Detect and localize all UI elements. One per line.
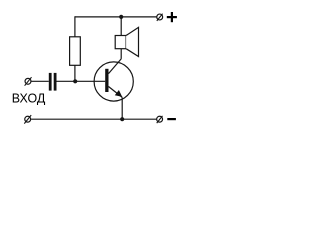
label: minus sign — [167, 118, 176, 120]
wire: input terminal to capacitor — [31, 80, 49, 82]
wire: bottom rail — [31, 118, 156, 120]
label: plus sign — [167, 12, 177, 22]
junction: top rail / speaker branch — [119, 15, 123, 19]
wire: resistor bottom to base node — [74, 65, 76, 81]
wire: emitter to bottom rail — [121, 97, 123, 119]
junction: base node — [73, 79, 77, 83]
speaker BA1 — [115, 27, 138, 56]
wire: speaker top to top rail — [120, 17, 122, 36]
terminal: plus output — [157, 14, 163, 21]
terminal: minus output — [157, 116, 163, 123]
wire: top rail — [75, 16, 157, 18]
junction: emitter / bottom rail — [120, 117, 124, 121]
terminal: input — [25, 77, 32, 86]
wire: capacitor to transistor base — [57, 80, 106, 82]
wire: top rail corner down to resistor top — [74, 16, 76, 37]
svg-text:ВХОД: ВХОД — [12, 92, 46, 106]
transistor VT1 — [94, 59, 133, 101]
wire: collector to speaker bottom — [120, 49, 122, 59]
terminal: common (ground) input — [24, 115, 31, 124]
resistor R1 — [70, 37, 81, 66]
capacitor C1 — [49, 73, 57, 91]
